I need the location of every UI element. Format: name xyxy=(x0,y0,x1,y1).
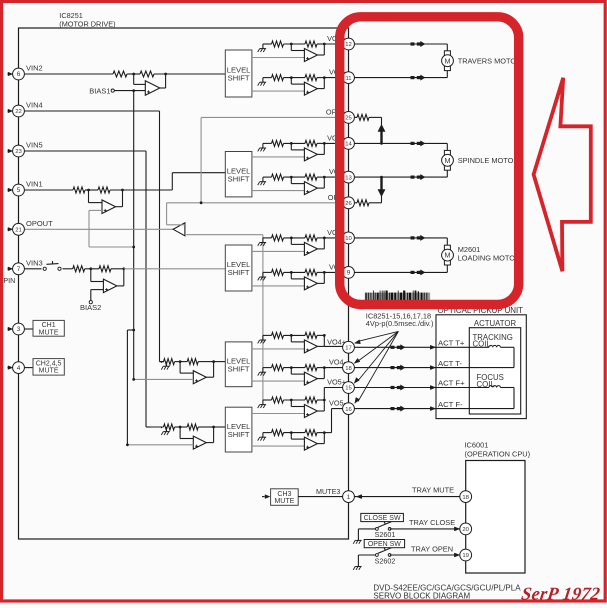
svg-text:OPEN SW: OPEN SW xyxy=(368,541,401,548)
svg-text:19: 19 xyxy=(462,553,469,559)
svg-text:S2602: S2602 xyxy=(375,556,396,565)
svg-text:CH3: CH3 xyxy=(277,491,291,498)
svg-text:OPOUT: OPOUT xyxy=(26,219,53,228)
svg-text:VO4+: VO4+ xyxy=(327,337,346,346)
svg-text:COIL: COIL xyxy=(473,340,492,349)
svg-text:SPINDLE MOTOR: SPINDLE MOTOR xyxy=(458,156,519,165)
svg-text:4: 4 xyxy=(17,365,21,372)
svg-text:SerP 1972: SerP 1972 xyxy=(520,584,601,604)
svg-text:MUTE: MUTE xyxy=(39,368,59,375)
svg-text:BIAS2: BIAS2 xyxy=(80,303,101,312)
svg-text:21: 21 xyxy=(15,228,22,234)
svg-text:TRAY MUTE: TRAY MUTE xyxy=(412,486,454,495)
svg-text:ACT F-: ACT F- xyxy=(438,400,463,409)
svg-text:CLOSE SW: CLOSE SW xyxy=(364,515,401,522)
svg-text:VIN5: VIN5 xyxy=(26,141,43,150)
svg-text:14: 14 xyxy=(345,142,352,148)
svg-text:MUTE: MUTE xyxy=(274,498,294,505)
svg-text:VIN3: VIN3 xyxy=(26,258,43,267)
svg-text:VIN2: VIN2 xyxy=(26,64,43,73)
svg-text:TRAY CLOSE: TRAY CLOSE xyxy=(409,518,455,527)
svg-text:18: 18 xyxy=(462,495,469,501)
svg-text:(OPERATION CPU): (OPERATION CPU) xyxy=(465,449,531,458)
svg-text:10: 10 xyxy=(345,236,352,242)
svg-text:LOADING MOTOR: LOADING MOTOR xyxy=(458,254,521,263)
svg-text:VO4-: VO4- xyxy=(329,358,347,367)
svg-text:3: 3 xyxy=(17,326,21,333)
svg-text:VIN1: VIN1 xyxy=(26,180,43,189)
svg-text:TRAY OPEN: TRAY OPEN xyxy=(411,544,453,553)
svg-text:VO5+: VO5+ xyxy=(327,378,346,387)
svg-text:S2601: S2601 xyxy=(375,530,396,539)
svg-text:26: 26 xyxy=(345,201,352,207)
svg-text:13: 13 xyxy=(345,175,352,181)
svg-text:12: 12 xyxy=(345,42,352,48)
svg-text:22: 22 xyxy=(15,109,22,115)
svg-text:25: 25 xyxy=(345,116,352,122)
svg-text:'PIN: 'PIN xyxy=(2,276,15,285)
svg-text:ACT T+: ACT T+ xyxy=(438,339,465,348)
svg-text:(MOTOR DRIVE): (MOTOR DRIVE) xyxy=(59,19,115,28)
svg-text:VIN4: VIN4 xyxy=(26,101,43,110)
svg-text:6: 6 xyxy=(17,71,21,78)
svg-text:TRAVERS MOTOR: TRAVERS MOTOR xyxy=(458,56,522,65)
svg-text:4Vp-p(0.5msec./div.): 4Vp-p(0.5msec./div.) xyxy=(366,319,434,328)
svg-text:SHIFT: SHIFT xyxy=(228,430,250,439)
svg-text:MUTE: MUTE xyxy=(39,329,59,336)
svg-text:17: 17 xyxy=(345,346,352,352)
svg-text:SHIFT: SHIFT xyxy=(228,74,250,83)
svg-text:ACT T-: ACT T- xyxy=(438,359,463,368)
svg-text:16: 16 xyxy=(345,407,352,413)
svg-text:23: 23 xyxy=(15,149,22,155)
svg-text:ACTUATOR: ACTUATOR xyxy=(474,319,517,328)
svg-text:1: 1 xyxy=(347,494,351,501)
svg-text:SHIFT: SHIFT xyxy=(228,268,250,277)
svg-text:SHIFT: SHIFT xyxy=(228,174,250,183)
svg-text:VO5-: VO5- xyxy=(329,399,347,408)
svg-text:18: 18 xyxy=(345,366,352,372)
svg-text:9: 9 xyxy=(347,270,351,277)
svg-text:M: M xyxy=(445,156,451,165)
svg-text:SHIFT: SHIFT xyxy=(228,365,250,374)
svg-text:M: M xyxy=(445,251,451,260)
svg-text:M2601: M2601 xyxy=(458,245,481,254)
svg-text:CH1: CH1 xyxy=(42,322,56,329)
svg-text:MUTE3: MUTE3 xyxy=(316,487,340,496)
svg-text:IC6001: IC6001 xyxy=(465,441,489,450)
svg-text:7: 7 xyxy=(17,266,21,273)
svg-text:M: M xyxy=(445,56,451,65)
svg-text:15: 15 xyxy=(345,386,352,392)
svg-text:CH2,4,5: CH2,4,5 xyxy=(36,360,62,367)
svg-text:11: 11 xyxy=(345,76,351,82)
svg-text:ACT F+: ACT F+ xyxy=(438,379,465,388)
svg-text:BIAS1: BIAS1 xyxy=(89,87,110,96)
svg-text:COIL: COIL xyxy=(477,380,496,389)
svg-text:20: 20 xyxy=(462,527,469,533)
svg-text:SERVO BLOCK DIAGRAM: SERVO BLOCK DIAGRAM xyxy=(373,591,470,600)
svg-text:5: 5 xyxy=(17,187,21,194)
